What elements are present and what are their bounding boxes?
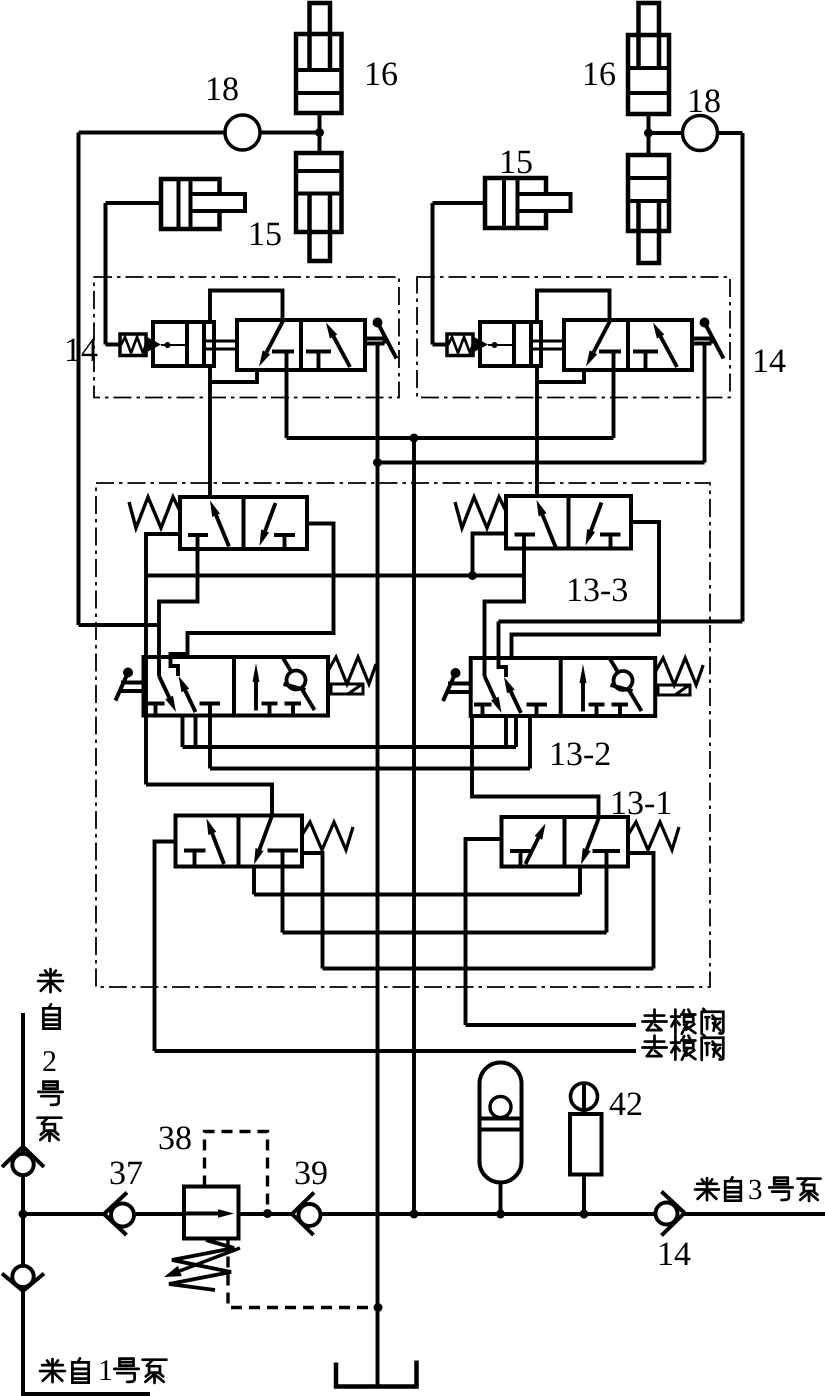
wire main line segment 3 — [239, 1212, 268, 1216]
cylinder 16 (right) piston top — [628, 66, 669, 70]
13-2 left lever arm — [116, 673, 129, 701]
13-2 left ball check seat — [284, 684, 306, 690]
digit 1 — [101, 1360, 112, 1380]
valve 14 main box — [564, 320, 692, 370]
13-2 right vertical flow arrow — [581, 683, 585, 712]
wire main line segment 1 — [23, 1212, 104, 1216]
cylinder 16 (right) piston bottom — [628, 91, 669, 95]
13-2 left spring bracket tick — [348, 684, 363, 695]
tank — [336, 1361, 417, 1387]
13-2 left crossover diagonal 1 — [159, 676, 169, 698]
accumulator separator line 2 — [480, 1128, 522, 1132]
13-2 left plunger line 2 — [121, 689, 144, 693]
wire 13-2L stub to h2 — [208, 716, 212, 769]
relief valve 38 adjust arrow — [180, 1248, 240, 1271]
wire gauge line right — [649, 131, 743, 135]
pilot cross rod — [204, 341, 237, 349]
wire pilot bridge — [210, 291, 283, 323]
wire 13-1R left port down to shuttle line 1 — [466, 839, 502, 1025]
wire accumulator stem — [499, 1183, 503, 1215]
node line A / bus2 — [410, 434, 419, 443]
wire stem between cylinders (left) — [318, 113, 322, 153]
wire line A connecting 14 T-ports — [287, 436, 614, 440]
13-3R left T stem — [522, 535, 526, 549]
wire pilot drain to valve port — [537, 366, 584, 382]
13-2 right ball check seat — [611, 685, 633, 691]
wire inlet to left pilot check — [106, 343, 121, 347]
valve 14 right-cell flow arrow — [661, 337, 677, 367]
check valve 14 (bottom) — [662, 1192, 685, 1214]
valve 14 left-cell flow arrow — [267, 321, 284, 352]
pilot spring — [448, 337, 473, 353]
wire bus 1 (tank return) — [376, 345, 380, 1385]
wire feed to 13-1R top — [472, 716, 599, 817]
13-3L right T stem — [283, 535, 287, 549]
wire 13-2R stub to h2 — [528, 716, 532, 769]
label lai-zi-1-hao-beng (from pump1) — [40, 1359, 65, 1382]
cylinder 16 (right) piston rod — [639, 3, 660, 68]
actuator plunger line 1 — [365, 337, 385, 341]
13-2 right lever pivot — [451, 668, 461, 678]
13-1R right T bar — [593, 849, 621, 853]
check ball — [165, 342, 171, 348]
cyl 15 left piston line 2 — [189, 179, 193, 229]
wire 13-1L side port to fan3 — [302, 853, 323, 969]
valve 14 right-cell T stem — [644, 352, 648, 371]
valve 14 left-cell T stem — [285, 352, 289, 371]
label qu-suo-fa 2 — [642, 1036, 666, 1057]
valve 13-1 right spring — [628, 822, 679, 850]
13-3R left T bar — [515, 533, 536, 537]
wire bottom edge stub — [23, 1392, 150, 1396]
label 13-2 — [552, 743, 564, 765]
actuator plunger line 2 — [692, 342, 712, 346]
label 13-3 — [569, 579, 581, 601]
wire fan line 1 — [254, 893, 580, 897]
valve 13-3 left box — [180, 497, 307, 549]
wire fan line 2 — [283, 931, 607, 935]
13-3L left T bar — [188, 533, 208, 537]
13-2 left T1 stem — [154, 704, 158, 716]
13-2 right top entry 2 jog — [499, 655, 507, 677]
check poppet arrow — [474, 337, 488, 352]
13-2 right T3 stem — [595, 705, 599, 717]
wire 13-2L stub a to h1 — [181, 716, 185, 748]
valve 14 right-cell T bar — [306, 350, 331, 354]
label 39 — [296, 1161, 310, 1184]
node gauge 42 stem — [580, 1210, 589, 1219]
13-3R left-cell arrow — [543, 515, 557, 548]
13-2 right T2 bar — [527, 703, 548, 707]
13-2 right T3 bar — [589, 703, 605, 707]
accumulator gas ball — [490, 1097, 511, 1118]
13-2 left T1 bar — [147, 702, 165, 706]
13-2 left T2 stem — [208, 704, 212, 716]
valve 14 left-cell T bar — [272, 350, 294, 354]
13-2 right top entry 1 — [483, 658, 487, 676]
wire main line to pump 3 — [685, 1212, 825, 1216]
actuator plunger line 2 — [365, 342, 385, 346]
right lower cylinder piston bottom — [628, 199, 669, 203]
wire port down to 13-3 — [535, 382, 539, 497]
wire left gauge drop x=78 — [77, 133, 81, 626]
valve 13-1 left box — [176, 816, 303, 867]
13-2 left ball check diagonal — [283, 658, 315, 710]
13-2 right ball check diagonal — [610, 659, 642, 711]
valve 14 right-cell T bar — [633, 350, 658, 354]
13-1L right-cell arrow — [260, 817, 272, 850]
relief valve 38 internal arrow — [186, 1212, 218, 1216]
lever pivot dot — [373, 318, 383, 328]
13-2 left T4 bar — [285, 702, 302, 706]
node 13-3R side port junction — [468, 571, 477, 580]
label 16 left — [367, 63, 379, 85]
13-2 left T3 bar — [262, 702, 278, 706]
cylinder 16 (right) body — [628, 35, 669, 114]
wire main line segment 4 — [268, 1212, 293, 1216]
pilot spring — [121, 337, 146, 353]
wire h2 connecting 13-2 valves — [210, 767, 530, 771]
wire gauge-line join left — [79, 623, 160, 627]
lever pivot dot — [700, 318, 710, 328]
left lower cylinder rod — [310, 194, 331, 262]
wire 13-3R side port down — [473, 534, 507, 576]
relief valve 38 spring — [169, 1240, 234, 1290]
13-2 right T1 stem — [481, 705, 485, 717]
13-2 right crossover diagonal 1 — [485, 676, 495, 699]
cyl 15 left rod — [191, 194, 246, 211]
actuator plunger end — [710, 339, 714, 344]
label 14 bottom — [660, 1243, 672, 1265]
accumulator shell — [480, 1063, 522, 1183]
13-2 right crossover diagonal 2 — [511, 692, 521, 714]
cylinder (left lower) body — [296, 153, 342, 232]
wire gauge 42 stem — [582, 1175, 586, 1215]
wire 13-1L arrow port to fan1 — [252, 867, 256, 895]
wire 13-1R side port to fan3 — [628, 853, 654, 969]
label 16 right — [585, 63, 597, 85]
13-3L right-cell arrow — [265, 503, 275, 531]
13-2 left ball check circle — [287, 671, 306, 690]
valve 13-2 left box — [144, 657, 329, 716]
13-2 right T4 bar — [612, 703, 629, 707]
label 42 — [610, 1093, 626, 1115]
right lower cylinder body — [628, 155, 669, 231]
gauge 42 body — [570, 1114, 602, 1175]
wire cross line y=575 — [146, 574, 524, 578]
gauge 18 (left) — [225, 115, 260, 150]
13-1R left-cell arrow — [526, 838, 539, 864]
wire feed to 13-1L top — [146, 785, 272, 816]
dashed drain line 38 — [228, 1239, 378, 1308]
digit 3 — [749, 1180, 761, 1199]
digit 2 — [43, 1051, 55, 1071]
13-3R right T stem — [609, 535, 613, 549]
valve 14 left-cell flow arrow — [594, 321, 611, 352]
13-3R right T bar — [600, 533, 621, 537]
cylinder 16 (left) piston rod — [310, 3, 331, 70]
13-2 left top entry 2 jog — [171, 654, 179, 676]
13-2 left T4 stem — [291, 704, 295, 716]
enclosure dash-dot box 13 group — [96, 483, 710, 987]
poppet rod — [488, 344, 514, 346]
13-2 right return spring — [655, 658, 703, 685]
13-1L left-cell arrow — [212, 833, 224, 864]
gauge 18 (right) — [683, 116, 718, 151]
wire to shuttle valve line 1 — [466, 1023, 637, 1027]
check valve 37 — [104, 1193, 127, 1215]
label lai-zi-2-hao-beng (from pump2) — [38, 969, 63, 992]
13-2 left divider — [232, 657, 236, 716]
wire from pump 2 vertical — [21, 1013, 25, 1396]
cylinder 15 (left) body — [161, 179, 220, 229]
wire main line segment 2 — [134, 1212, 184, 1216]
cyl 15 right piston line 1 — [502, 178, 506, 228]
wire pilot bridge — [537, 291, 610, 323]
accumulator separator line 1 — [480, 1117, 522, 1121]
13-1R divider — [563, 817, 567, 867]
wire fan line 3 — [323, 967, 654, 971]
13-2 right divider — [559, 658, 563, 716]
valve 13-3 left divider — [242, 497, 246, 549]
valve 14 divider — [626, 320, 630, 370]
valve 13-3 right spring — [455, 497, 506, 528]
right lower cylinder piston top — [628, 176, 669, 180]
13-2 right T4 stem — [618, 705, 622, 717]
label 14 — [67, 339, 79, 361]
node bus2 to main line — [410, 1210, 419, 1219]
left lower cylinder piston bottom — [296, 192, 342, 196]
valve 13-3 right divider — [567, 496, 571, 549]
13-2 left spring bracket — [331, 684, 363, 694]
wire right gauge drop x=742 — [741, 133, 745, 622]
label qu-suo-fa 1 — [642, 1010, 666, 1031]
cyl 15 right piston line 2 — [516, 178, 520, 228]
13-1L divider — [237, 816, 241, 867]
13-2 left T2 bar — [200, 702, 221, 706]
13-2 left T3 stem — [268, 704, 272, 716]
wire 13-1R arrow port to fan1 — [578, 867, 582, 895]
gauge 42 circle — [571, 1083, 598, 1110]
13-2 left lever pivot — [123, 668, 133, 678]
label 38 — [160, 1126, 174, 1149]
label 18 left — [208, 78, 220, 100]
label 15 left — [251, 223, 263, 245]
cyl 15 left piston line 1 — [177, 179, 181, 229]
lever arm — [378, 323, 397, 359]
wire cyl15R drop x=432 — [431, 203, 435, 345]
actuator plunger end — [383, 339, 387, 344]
13-1L right T bar — [268, 849, 299, 853]
valve 14 main box — [237, 320, 365, 370]
13-1L left T bar — [184, 849, 206, 853]
label 18 right — [690, 90, 702, 112]
13-1R right-cell arrow — [587, 818, 599, 850]
13-1L left T stem — [193, 851, 197, 867]
13-2 right spring bracket tick — [675, 685, 690, 696]
wire right 14 lever port down — [703, 345, 707, 463]
label 37 — [111, 1161, 125, 1184]
node line B / bus1 — [373, 458, 382, 467]
wire 13-3R right port zigzag to 13-2 — [512, 522, 660, 658]
node accumulator stem — [496, 1210, 505, 1219]
13-2 right plunger line 1 — [448, 682, 471, 686]
wire 13-1L left port down to shuttle line 2 — [155, 842, 176, 1052]
valve 13-3 right box — [506, 496, 631, 549]
13-2 right plunger line 2 — [448, 690, 471, 694]
13-2 left return spring — [328, 657, 376, 684]
13-2 left top entry 1 — [157, 657, 161, 676]
13-1R left T stem — [519, 851, 523, 867]
wire to cylinder 15 right — [433, 201, 486, 205]
wire gauge 42 top stem — [582, 1083, 586, 1114]
13-2 right T1 bar — [474, 703, 492, 707]
label 15 right — [502, 151, 514, 173]
wire h1 connecting 13-2 valves — [183, 745, 517, 749]
13-2 right T2 stem — [535, 705, 539, 717]
node pilot junction — [263, 1209, 272, 1218]
relief valve 38 box — [184, 1187, 239, 1239]
wire 13-3L side port down — [146, 534, 180, 785]
valve 14 left-cell T bar — [599, 350, 621, 354]
wire pilot drain to valve port — [210, 366, 257, 382]
13-1L right T stem — [281, 851, 285, 867]
wire gauge join drop right — [497, 622, 501, 659]
13-2 right spring bracket — [658, 685, 690, 695]
poppet rod — [161, 344, 187, 346]
pilot body box — [480, 322, 541, 366]
13-3L left-cell arrow — [216, 515, 229, 546]
valve 13-2 right box — [471, 658, 656, 716]
valve 14 left-cell T stem — [612, 352, 616, 371]
cylinder 16 (left) piston top — [296, 68, 342, 72]
wire 13-2L stub b to h1 — [194, 716, 198, 748]
enclosure dash-dot box 14 left — [94, 277, 399, 398]
13-2 left plunger line 1 — [121, 681, 144, 685]
pilot body box — [153, 322, 214, 366]
wire bus 2 (pressure) — [412, 438, 416, 1214]
check poppet arrow — [147, 337, 161, 352]
label 13-1 — [613, 792, 625, 814]
wire cyl15L drop x=105 — [104, 203, 108, 345]
wire to shuttle valve line 2 — [155, 1049, 637, 1053]
wire stem between cylinders (right) — [647, 114, 651, 155]
node junction right cylinders — [644, 129, 653, 138]
right lower cylinder rod — [639, 201, 660, 263]
13-2 left vertical flow arrow — [254, 682, 258, 711]
13-3R right-cell arrow — [591, 503, 601, 531]
node pump junction — [19, 1210, 28, 1219]
left lower cylinder piston top — [296, 169, 342, 173]
valve 14 divider — [299, 320, 303, 370]
lever arm — [705, 323, 724, 359]
13-1R right T stem — [605, 851, 609, 867]
valve 13-1 left spring — [302, 822, 353, 850]
enclosure dash-dot box 14 right — [417, 277, 730, 398]
wire gauge line left — [79, 131, 320, 135]
valve 14 right-cell T stem — [317, 352, 321, 371]
valve 14 right-cell flow arrow — [334, 337, 350, 367]
wire main line segment 5 — [321, 1212, 656, 1216]
wire inlet to right pilot check — [433, 343, 448, 347]
wire 13-3L T-port jog to 13-2 — [159, 549, 198, 676]
cyl 15 right rod — [518, 194, 571, 211]
wire 13-1L T port to fan2 — [281, 867, 285, 933]
pilot spring box — [447, 334, 473, 356]
wire port down to 13-3 — [208, 382, 212, 497]
check valve lower (pump 1) — [2, 1274, 23, 1292]
13-3L right T bar — [274, 533, 295, 537]
wire T port down to line A — [612, 370, 616, 438]
wire 13-2R stub a to h1 — [504, 716, 508, 747]
dashed pilot line 38 — [205, 1132, 268, 1214]
wire 13-3R T-port jog to 13-2 — [485, 549, 525, 677]
13-2 right lever arm — [443, 673, 456, 701]
pilot piston bar — [514, 322, 531, 366]
13-2 left crossover diagonal 2 — [185, 691, 195, 713]
wire line B — [378, 461, 705, 465]
wire to cylinder 15 left — [106, 201, 162, 205]
wire 13-2R stub b to h1 — [514, 716, 518, 747]
cylinder 16 (left) piston bottom — [296, 91, 342, 95]
label 14 — [755, 350, 767, 372]
check valve 39 — [292, 1193, 314, 1215]
node drain to tank line — [374, 1303, 383, 1312]
cylinder 15 (right) body — [485, 178, 546, 228]
pilot spring box — [120, 334, 146, 356]
pilot piston bar — [187, 322, 204, 366]
check ball — [492, 342, 498, 348]
valve 13-1 right box — [502, 817, 629, 867]
actuator plunger line 1 — [692, 337, 712, 341]
13-1R left T bar — [510, 849, 532, 853]
wire 13-3L right port zigzag to 13-2 — [171, 524, 334, 659]
label lai-zi-3-hao-beng (from pump3) — [695, 1178, 719, 1200]
check valve upper (pump 2) — [2, 1147, 23, 1168]
13-3L left T stem — [196, 535, 200, 549]
valve 13-3 left spring — [129, 497, 180, 528]
13-2 right ball check circle — [614, 671, 633, 690]
wire 13-1R T port to fan2 — [605, 867, 609, 933]
wire T port down to line A — [285, 370, 289, 438]
wire gauge-line join right — [499, 620, 743, 624]
pilot cross rod — [531, 341, 564, 349]
cylinder 16 (left) body — [296, 34, 342, 113]
node junction left cylinders — [315, 128, 324, 137]
